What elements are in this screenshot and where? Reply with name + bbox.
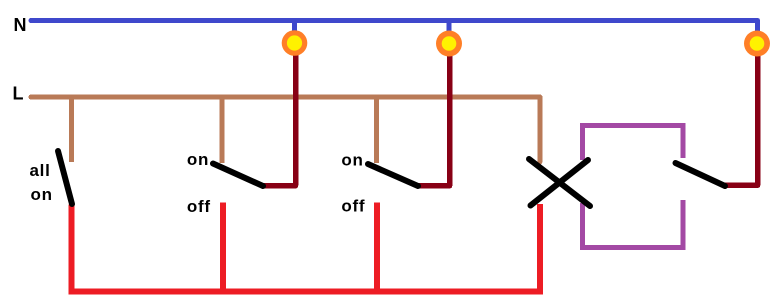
- junction box outline (purple), upper half: [583, 126, 684, 160]
- switch S4 blade (two-way, right): [676, 163, 726, 186]
- wire: L drop to switch S2: [220, 99, 225, 163]
- svg-text:off: off: [187, 197, 211, 216]
- junction box outline (purple), lower half: [583, 200, 684, 248]
- wire: switch S3 off to return bus (red): [374, 203, 380, 292]
- svg-text:on: on: [31, 185, 53, 204]
- crossover switch blade A: [529, 159, 590, 206]
- switch S1 blade (master all-on): [58, 151, 72, 204]
- wire: neutral bus N (blue): [31, 21, 758, 37]
- lamp LP3: [744, 31, 770, 57]
- switch S2 blade: [213, 164, 263, 187]
- svg-text:all: all: [30, 161, 51, 180]
- wire: switched live lamp LP3 (dark red): [724, 43, 758, 185]
- svg-text:off: off: [341, 197, 365, 216]
- svg-text:on: on: [341, 150, 363, 169]
- wire: switch S1 to return bus (red): [68, 205, 74, 292]
- wire: N drop to lamp LP2: [447, 22, 452, 38]
- wire: switched live lamp LP1 (dark red): [262, 43, 296, 186]
- wire: N drop to lamp LP1: [292, 22, 297, 38]
- wire: switched live lamp LP2 (dark red): [417, 43, 450, 186]
- svg-text:on: on: [187, 150, 209, 169]
- wire: return bus (red) with riser from crossover switch: [68, 204, 540, 292]
- wire: L drop to switch S1: [69, 99, 74, 162]
- wire: L drop to switch S3: [374, 99, 379, 163]
- switch S3 blade: [368, 164, 418, 186]
- lamp LP2: [436, 31, 462, 57]
- wire: switch S2 off to return bus (red): [220, 203, 226, 292]
- lamp LP1: [282, 30, 308, 56]
- crossover switch blade B: [531, 160, 589, 206]
- wire: live bus L (brown) with feed drop to crossover switch: [31, 97, 540, 162]
- svg-text:N: N: [14, 15, 28, 35]
- svg-text:L: L: [13, 84, 25, 104]
